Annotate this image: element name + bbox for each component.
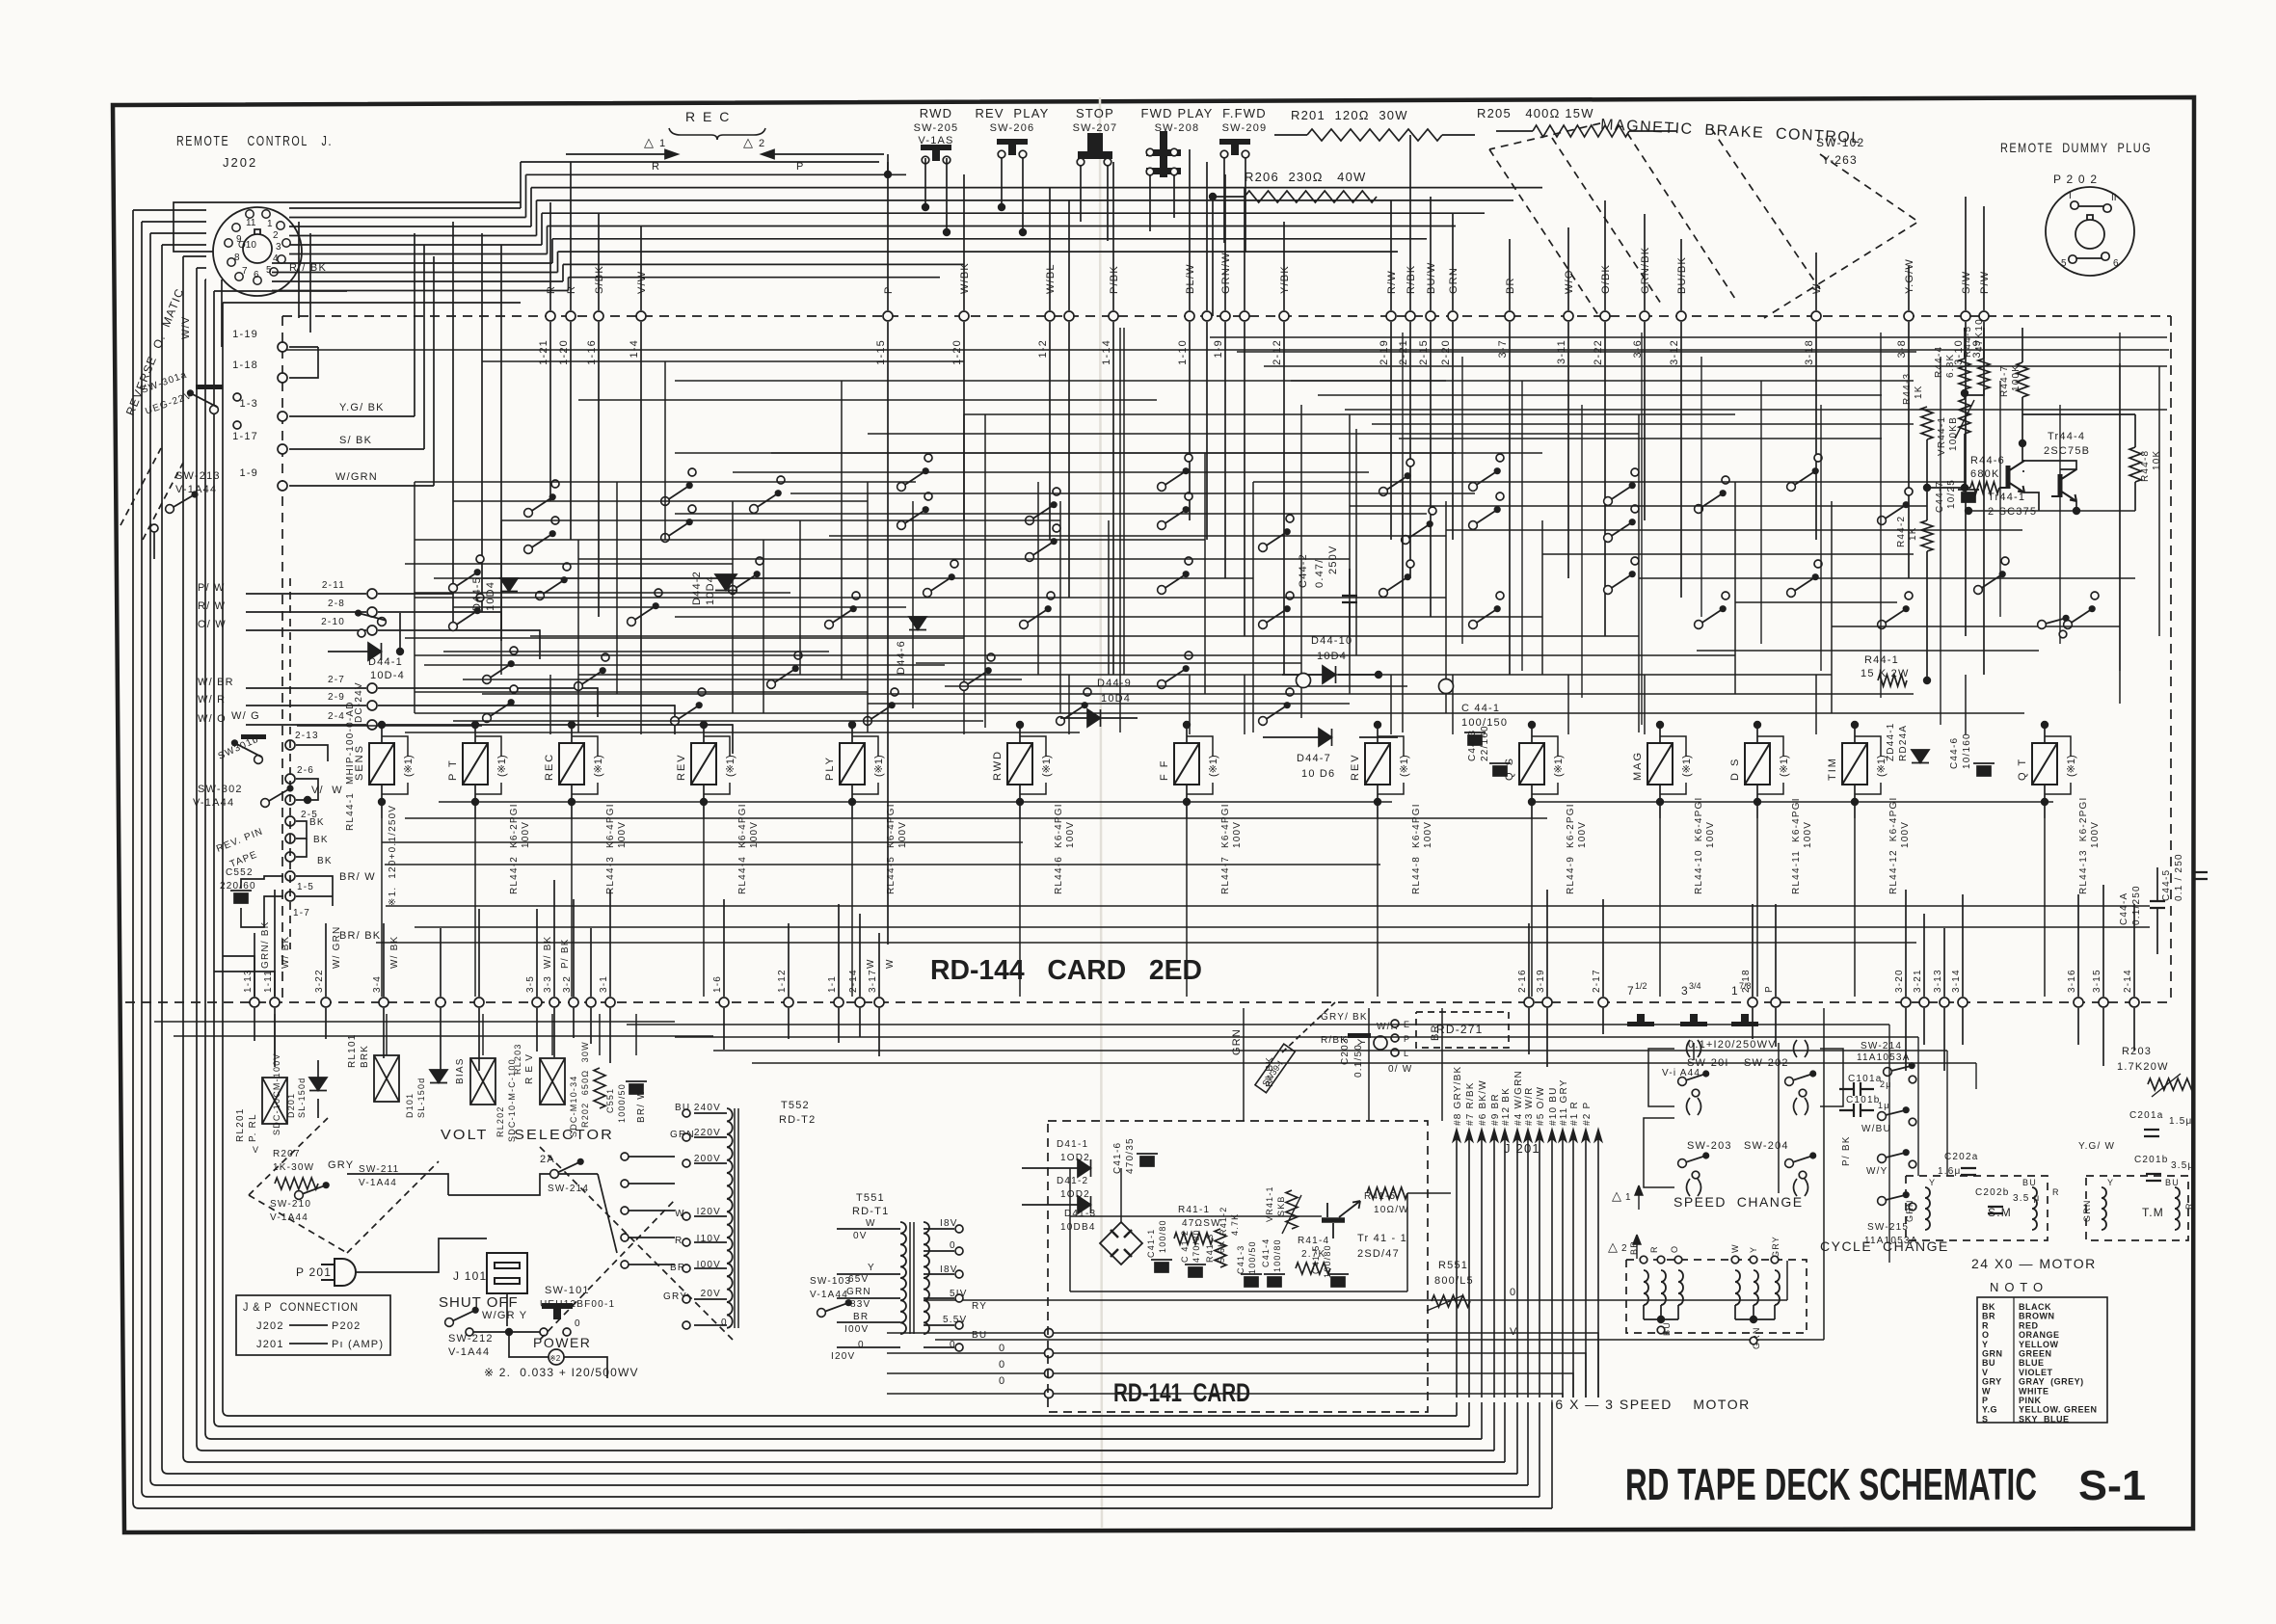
svg-text:GRY: GRY (1771, 1236, 1781, 1258)
wire (1965, 322, 1967, 636)
wire (2133, 904, 2135, 997)
svg-text:9: 9 (236, 234, 242, 245)
wire (723, 1008, 725, 1050)
lamp wire (1855, 736, 1881, 757)
wire (2077, 1008, 2079, 1045)
resistor R206 (1245, 191, 1377, 202)
switch (1026, 538, 1058, 561)
contact (1799, 1171, 1807, 1179)
wire bottom bundle (189, 1461, 1505, 1463)
wire (551, 239, 553, 263)
svg-text:WHITE: WHITE (2019, 1386, 2049, 1396)
wire (1756, 785, 1758, 818)
svg-text:I00V: I00V (844, 1324, 869, 1335)
wire (1756, 818, 1758, 997)
wire (1644, 675, 1646, 734)
svg-text:D201: D201 (286, 1093, 296, 1118)
junction (848, 721, 856, 729)
wire (616, 482, 618, 694)
svg-text:100/80: 100/80 (1323, 1244, 1332, 1278)
svg-text:W/ GRN: W/ GRN (332, 926, 342, 969)
svg-text:SL-150d: SL-150d (297, 1078, 307, 1118)
svg-text:C 41-2: C 41-2 (1180, 1230, 1190, 1263)
wire (289, 346, 318, 348)
wire (453, 606, 906, 608)
svg-text:W/BK: W/BK (959, 262, 971, 294)
wire (1204, 453, 1206, 694)
switch (1469, 467, 1501, 491)
bus node 3-18 (1811, 311, 1821, 321)
svg-text:3/4: 3/4 (1689, 981, 1701, 991)
svg-text:J202: J202 (256, 1320, 284, 1332)
wire (1753, 1305, 1754, 1319)
svg-text:RL44-9 K6-2PGI: RL44-9 K6-2PGI (1566, 803, 1576, 894)
wire (481, 233, 483, 612)
contact (476, 594, 484, 601)
contact (1496, 493, 1504, 500)
junction (884, 171, 892, 178)
switch SW-213 (166, 491, 199, 513)
wire (221, 280, 223, 347)
wire (509, 1332, 549, 1357)
contact BU (1657, 1326, 1665, 1334)
wire (452, 222, 454, 594)
contact (540, 1328, 548, 1336)
svg-text:10K: 10K (2152, 450, 2162, 470)
capacitor C101b (1839, 1104, 1874, 1117)
wire (386, 1014, 388, 1055)
wire (500, 520, 502, 675)
switch (1695, 490, 1727, 513)
svg-text:(※1): (※1) (1779, 755, 1790, 777)
wire (1820, 1049, 1843, 1106)
wire (1068, 675, 1070, 734)
svg-text:22/160: 22/160 (1480, 725, 1490, 761)
wire bottom bundle (147, 1496, 1540, 1498)
contact (924, 454, 932, 462)
wire (381, 818, 383, 997)
svg-text:F F: F F (1159, 759, 1170, 782)
wire (289, 448, 424, 450)
svg-text:240V: 240V (694, 1103, 721, 1113)
contact (1909, 1160, 1916, 1168)
svg-text:R/BK: R/BK (1406, 265, 1417, 294)
bus node 2-22 (1600, 311, 1610, 321)
switch (1158, 506, 1190, 529)
wire (1445, 501, 1447, 713)
wire (1019, 785, 1021, 818)
wire (423, 245, 425, 449)
svg-text:V-1A44: V-1A44 (810, 1290, 848, 1300)
wire (558, 251, 1399, 253)
svg-text:R205 400Ω 15W: R205 400Ω 15W (1477, 106, 1594, 120)
wire (916, 662, 1301, 664)
switch (864, 702, 896, 725)
svg-text:BK: BK (1982, 1302, 1995, 1312)
tap wire (694, 1241, 727, 1243)
bus2 node 1-1 (834, 998, 843, 1007)
svg-text:D44-9: D44-9 (1097, 678, 1132, 689)
contact (794, 652, 802, 659)
svg-text:P/ W: P/ W (198, 582, 226, 594)
wire (223, 956, 254, 997)
wire (963, 174, 965, 310)
wire (347, 1174, 448, 1195)
svg-text:RL44-8 K6-4PGI: RL44-8 K6-4PGI (1411, 803, 1422, 894)
lamp wire (1187, 783, 1213, 794)
motor winding (1678, 1270, 1683, 1305)
wire (214, 972, 275, 997)
socket J101 (487, 1253, 527, 1293)
svg-text:0: 0 (575, 1318, 581, 1329)
capacitor C41-1 (1151, 1260, 1172, 1272)
wire (1648, 1049, 1674, 1106)
svg-text:#9 BR: #9 BR (1490, 1093, 1501, 1126)
svg-text:RL44-10 K6-4PGI: RL44-10 K6-4PGI (1694, 797, 1704, 894)
winding contact (1674, 1256, 1682, 1264)
wire (1402, 333, 1404, 617)
wire (378, 724, 733, 726)
wire (356, 1238, 487, 1272)
wire (2119, 333, 2121, 671)
wire pin link (2076, 257, 2102, 259)
wire J201 riser (1551, 1402, 1553, 1508)
svg-text:I6 X — 3 SPEED MOTOR: I6 X — 3 SPEED MOTOR (1550, 1397, 1751, 1412)
wire (1022, 158, 1024, 232)
core line (734, 1108, 736, 1328)
svg-text:W/BL: W/BL (1045, 263, 1057, 294)
wire bottom bundle (139, 1507, 1552, 1509)
wire (1854, 818, 1856, 997)
lamp wire (1757, 736, 1783, 757)
svg-text:※1. 120+0.1/250V: ※1. 120+0.1/250V (388, 805, 398, 906)
contact (1170, 168, 1178, 175)
wire (183, 255, 206, 257)
wire (1430, 322, 1432, 617)
wire (1080, 166, 1082, 222)
svg-text:2-6: 2-6 (297, 765, 314, 776)
dashed box S.M motor (1906, 1176, 2048, 1240)
svg-text:P/ BK: P/ BK (560, 938, 571, 969)
svg-text:REV: REV (1350, 753, 1361, 781)
contact (1905, 592, 1913, 599)
wire (1186, 785, 1188, 818)
svg-text:800/L5: 800/L5 (1434, 1275, 1474, 1287)
wire (1049, 187, 1051, 310)
connector pin arrow J201 (1502, 1130, 1509, 1398)
svg-text:GRN/ BK: GRN/ BK (260, 920, 271, 969)
wire (599, 1014, 601, 1055)
bus2 node 2-14 (2129, 998, 2139, 1007)
bus2 node 2-17 (1598, 998, 1608, 1007)
relay RL203 (540, 1058, 565, 1105)
svg-text:※ 2. 0.033 + I20/500WV: ※ 2. 0.033 + I20/500WV (484, 1366, 639, 1379)
wire (2022, 413, 2135, 415)
pin 2 of J202 (277, 222, 284, 229)
svg-text:C44-3: C44-3 (1467, 730, 1478, 761)
wire (254, 933, 255, 997)
svg-text:W/ BK: W/ BK (543, 936, 553, 969)
contact (1185, 493, 1192, 500)
wire (838, 904, 840, 997)
lamp wire (1020, 736, 1046, 757)
svg-text:10/25: 10/25 (1946, 479, 1957, 509)
switch (1695, 605, 1727, 628)
wire (142, 221, 206, 223)
svg-text:D44-1: D44-1 (368, 656, 403, 668)
wire J201 riser (1468, 1402, 1470, 1426)
switch (1678, 1152, 1710, 1167)
wire (1189, 322, 1191, 520)
svg-text:3.5μ: 3.5μ (2171, 1160, 2194, 1171)
wire (1734, 1305, 1736, 1319)
tap contact (683, 1109, 690, 1117)
wire (289, 485, 434, 487)
wire (629, 1210, 675, 1211)
relay RL44-4 REV (691, 743, 716, 785)
resistor R44-5 (1978, 359, 1990, 389)
svg-text:3-7: 3-7 (1497, 339, 1509, 359)
switch (1604, 482, 1636, 505)
wire (415, 592, 790, 594)
wire (1854, 725, 1856, 743)
bus2 node 3-19 (1542, 998, 1552, 1007)
T.M winding (2175, 1187, 2180, 1230)
contact (233, 421, 241, 429)
wire (133, 209, 206, 211)
resistor R44-4 (1959, 359, 1970, 389)
svg-text:2: 2 (1621, 1243, 1627, 1254)
wire (241, 876, 283, 889)
diode D201 (309, 1078, 327, 1091)
wire corner (142, 1491, 147, 1497)
switch (449, 569, 481, 592)
svg-text:P 201: P 201 (296, 1265, 332, 1279)
svg-text:3-16: 3-16 (2067, 969, 2077, 993)
svg-text:△: △ (1612, 1188, 1621, 1203)
svg-text:2-10: 2-10 (321, 617, 345, 627)
capacitor C44-3 (1489, 763, 1511, 776)
speed mark (1731, 1014, 1758, 1026)
svg-text:C44-2: C44-2 (1298, 553, 1309, 588)
pin 9 of J202 (225, 239, 232, 247)
tap wire (694, 1215, 727, 1217)
svg-text:W/ O: W/ O (198, 713, 227, 725)
speed mark (1680, 1014, 1707, 1026)
wire (246, 593, 366, 595)
wire left bundle (161, 245, 163, 1468)
svg-text:100/50: 100/50 (1247, 1240, 1257, 1274)
dashed selector line (347, 1161, 439, 1253)
svg-text:Y: Y (1982, 1340, 1989, 1349)
junction (378, 798, 386, 806)
connector pin arrow J201 (1570, 1130, 1577, 1398)
svg-text:100/80: 100/80 (1158, 1219, 1167, 1253)
wire (1975, 1063, 1977, 1089)
svg-text:C44-7: C44-7 (1935, 481, 1945, 513)
selector lever (598, 1174, 617, 1253)
svg-text:W/ G: W/ G (231, 710, 260, 722)
switch bar (196, 385, 223, 389)
wire (448, 1174, 598, 1195)
contact (551, 517, 559, 524)
wire (1123, 328, 1125, 675)
wire left bundle (222, 303, 224, 1410)
wire (150, 232, 206, 234)
wire (1823, 1008, 1825, 1340)
wire (868, 703, 1350, 705)
bus node 3-12 (1676, 311, 1686, 321)
switch (1259, 605, 1291, 628)
wire (1452, 214, 1454, 310)
svg-text:24 X0 — MOTOR: 24 X0 — MOTOR (1971, 1256, 2097, 1271)
svg-text:#11 GRY: #11 GRY (1559, 1078, 1569, 1126)
svg-text:C552: C552 (226, 867, 254, 878)
pushbutton switch (921, 145, 951, 161)
wire (415, 481, 916, 483)
svg-text:Y: Y (1749, 1246, 1758, 1253)
wire (1282, 674, 1323, 676)
wire (1019, 725, 1021, 743)
wire (296, 839, 307, 857)
wire (289, 415, 415, 417)
svg-text:R: R (1982, 1320, 1989, 1330)
dashed brake control line (1711, 128, 1820, 289)
wire (1677, 1305, 1679, 1319)
switch (1057, 702, 1088, 725)
svg-text:(※1): (※1) (496, 755, 508, 777)
junction (1923, 484, 1931, 492)
svg-text:(※1): (※1) (1041, 755, 1053, 777)
svg-text:10 D6: 10 D6 (1301, 768, 1335, 780)
svg-text:P: P (883, 285, 895, 294)
pot arrow (1282, 1195, 1301, 1234)
selector contact (621, 1207, 629, 1214)
contact (1185, 557, 1192, 565)
switch (2038, 615, 2070, 629)
switch (1020, 605, 1052, 628)
wire (482, 1014, 484, 1055)
contact (688, 505, 696, 513)
svg-text:R/ W: R/ W (198, 600, 226, 612)
wire (578, 558, 1350, 560)
resistor R44-3 (1921, 407, 1933, 439)
wire (478, 909, 480, 997)
svg-text:V: V (1510, 1326, 1518, 1338)
svg-text:100V: 100V (521, 821, 531, 848)
lamp wire (382, 736, 408, 757)
wire (246, 724, 366, 726)
wire (317, 1060, 319, 1078)
lamp wire (1020, 783, 1046, 794)
wire (415, 654, 1735, 656)
wire (1390, 675, 1392, 734)
svg-text:2SC75B: 2SC75B (2044, 445, 2090, 457)
arrow (1633, 1235, 1641, 1259)
wire (1880, 333, 1882, 698)
svg-text:Y.G: Y.G (1982, 1405, 1997, 1415)
wire (415, 597, 1446, 599)
wire (1965, 389, 1984, 395)
svg-text:O: O (1982, 1330, 1990, 1340)
switch (1787, 467, 1819, 491)
svg-text:BU/BK: BU/BK (1676, 256, 1688, 294)
svg-text:W/V: W/V (180, 316, 192, 339)
wire (790, 493, 1475, 494)
wire (424, 664, 945, 666)
tap wire (694, 1267, 727, 1269)
wire (205, 279, 206, 280)
bus node 3-6 (1640, 311, 1649, 321)
tap wire (694, 1298, 727, 1300)
wire (1318, 394, 1882, 396)
wire (1022, 1167, 1078, 1169)
svg-text:Q T: Q T (2017, 758, 2028, 781)
wire (1820, 405, 1822, 671)
svg-text:2μ: 2μ (1880, 1079, 1892, 1089)
relay RL44-1 SENS (369, 743, 394, 785)
svg-text:W/BU: W/BU (1861, 1124, 1891, 1134)
wire (1300, 405, 1302, 718)
wire J201 riser (1516, 1402, 1518, 1474)
lamp wire (475, 783, 501, 794)
transistor Tr44-4 (1999, 461, 2024, 493)
svg-text:R44-4: R44-4 (1934, 346, 1944, 378)
wire (1069, 1168, 1071, 1291)
svg-text:R202 650Ω 30W: R202 650Ω 30W (580, 1041, 590, 1128)
contact (698, 688, 706, 696)
junction (1375, 671, 1382, 679)
svg-text:P 2 0 2: P 2 0 2 (2053, 173, 2098, 186)
dashed brake control line (1627, 133, 1735, 299)
wire (453, 720, 983, 722)
wire (1546, 890, 1548, 997)
wire (1962, 1008, 1964, 1045)
tap contact (683, 1238, 690, 1246)
svg-text:R E C: R E C (685, 109, 731, 124)
svg-text:R203: R203 (2122, 1046, 2152, 1057)
wire (557, 252, 559, 272)
wire (325, 1008, 327, 1039)
resistor R207 (275, 1178, 318, 1189)
dashed brake control line (1764, 154, 1918, 318)
pin 11 of P202 (2103, 204, 2111, 212)
contact GRN (1750, 1337, 1757, 1344)
contact (924, 493, 932, 500)
wire (1659, 785, 1661, 818)
svg-text:10D4: 10D4 (1317, 651, 1347, 662)
legend divider (2013, 1297, 2015, 1423)
svg-text:C202b: C202b (1975, 1187, 2009, 1198)
wire (1377, 818, 1379, 997)
diode D44-6 (909, 617, 926, 630)
svg-text:ORANGE: ORANGE (2019, 1330, 2060, 1340)
wire (405, 732, 1080, 733)
wire (563, 263, 964, 265)
wire (500, 611, 502, 641)
wire (2158, 366, 2160, 636)
wire (1752, 1008, 1754, 1039)
svg-text:100V: 100V (897, 821, 908, 848)
switch SW-214 (1884, 1062, 1915, 1076)
relay RL44-13 Q T (2032, 743, 2057, 785)
wire (525, 174, 527, 217)
lamp wire (2045, 783, 2071, 794)
svg-text:RD-T2: RD-T2 (779, 1114, 816, 1126)
wire (732, 501, 734, 713)
svg-text:V: V (1982, 1368, 1989, 1377)
bus node 1-4 (636, 311, 646, 321)
